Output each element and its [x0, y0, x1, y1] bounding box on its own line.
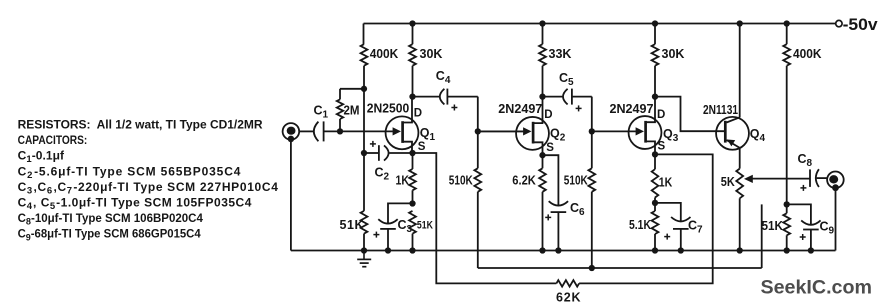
- junction 2M / 400K bias node: [361, 86, 367, 92]
- resistor 510K (Q2 gate return): [474, 131, 481, 268]
- label 510K: [449, 174, 473, 188]
- node C2 left / 51K top: [361, 150, 367, 156]
- label 5.1K: [629, 218, 651, 232]
- capacitor C2 (5.6uf, source bypass to bias node): [364, 145, 413, 161]
- junction C9 / ground rail: [808, 247, 814, 253]
- node Q2 gate / 510K: [475, 128, 481, 134]
- label 51K: [762, 219, 784, 233]
- svg-text:62K: 62K: [556, 291, 581, 305]
- label C3: [398, 218, 413, 235]
- svg-text:D: D: [657, 109, 665, 121]
- terminal -50v supply: [836, 16, 879, 34]
- svg-text:2N2497: 2N2497: [610, 101, 654, 116]
- resistor 5.1K (parallel C7): [652, 203, 659, 251]
- wire 51K/C9 node down to bias return line: [761, 204, 763, 268]
- capacitor C3 (220uf) jog and plates: [378, 203, 412, 250]
- junction 51K / ground rail: [409, 247, 415, 253]
- capacitor C7 (220uf) jog and plates: [655, 203, 691, 251]
- label 2N2497: [498, 101, 542, 116]
- capacitor C9 (68uf, parallel 51K): [787, 204, 821, 250]
- resistor 1K (Q3 source): [652, 154, 659, 203]
- svg-text:S: S: [418, 141, 426, 153]
- polarity + of C5: [576, 105, 582, 111]
- junction top rail / 33K: [539, 20, 545, 26]
- junction 5K / ground rail: [737, 247, 743, 253]
- polarity + of C4: [451, 105, 457, 111]
- polarity + of C8: [800, 185, 806, 191]
- node Q2 source: [539, 152, 545, 158]
- resistor 1K (Q1 source): [409, 153, 416, 204]
- label 2M: [344, 104, 360, 118]
- junction C3 / ground rail: [385, 247, 391, 253]
- polarity + of C3: [373, 232, 379, 238]
- label 1K: [659, 176, 673, 190]
- pin label S (Q3 source): [658, 141, 666, 153]
- resistor 62K (feedback): [556, 280, 579, 286]
- resistor 51K (Q1 source return): [361, 153, 368, 251]
- transistor Q3 (2N2497 FET): [629, 97, 662, 155]
- svg-text:400K: 400K: [793, 47, 822, 61]
- node Q1 source: [409, 150, 415, 156]
- label 2N2500: [367, 100, 410, 115]
- resistor 510K (Q3 gate return): [588, 131, 595, 268]
- junction top rail / Q4 emitter: [737, 20, 743, 26]
- wire C1 to gate node Q1: [324, 130, 393, 132]
- label 30K: [420, 47, 443, 61]
- capacitor C1 (0.1uf input coupling): [314, 121, 324, 141]
- svg-text:5K: 5K: [721, 175, 735, 189]
- resistor 51K (parallel C3): [409, 211, 416, 251]
- wire top supply rail (-50v bus): [364, 23, 836, 25]
- node 1K bottom / C7 / 5.1K: [652, 200, 658, 206]
- svg-text:30K: 30K: [662, 47, 685, 61]
- label 2N1131: [703, 102, 738, 117]
- pin label S (Q2 source): [546, 142, 554, 154]
- svg-text:2M: 2M: [344, 104, 360, 118]
- junction 5.1K / ground rail: [652, 247, 658, 253]
- wire input jack shield down to ground rail: [290, 140, 292, 251]
- polarity + of C6: [545, 214, 551, 220]
- svg-text:51K: 51K: [762, 219, 784, 233]
- svg-text:510K: 510K: [564, 174, 588, 188]
- capacitor C5 (1.0uf interstage coupling): [543, 89, 592, 105]
- resistor 30K (Q1 drain load): [409, 24, 416, 97]
- wire Q3 drain to Q4 base: [655, 97, 725, 132]
- transistor Q2 (2N2497 FET): [478, 97, 549, 156]
- polarity + of C9: [800, 234, 806, 240]
- svg-text:RESISTORS: All 1/2 watt, TI T: RESISTORS: All 1/2 watt, TI Type CD1/2MR: [18, 117, 263, 131]
- junction top rail / 30K drain Q1: [409, 20, 415, 26]
- svg-text:1K: 1K: [396, 174, 410, 188]
- svg-text:CAPACITORS:: CAPACITORS:: [18, 133, 88, 147]
- svg-text:51K: 51K: [340, 218, 364, 232]
- label 51K: [340, 218, 364, 232]
- polarity + of C2: [370, 141, 376, 147]
- label 400K: [793, 47, 822, 61]
- label Q2: [550, 127, 566, 144]
- capacitor C8 (10uf output coupling): [810, 169, 827, 187]
- transistor Q1 (2N2500 FET): [386, 97, 419, 153]
- junction C6 / ground rail: [555, 247, 561, 253]
- capacitor C6 (220uf source bypass): [543, 155, 569, 250]
- junction top rail / 400K output: [784, 20, 790, 26]
- svg-text:2N2500: 2N2500: [367, 100, 410, 115]
- svg-text:S: S: [658, 141, 666, 153]
- label C4: [436, 69, 451, 86]
- node Q2 drain / C5: [539, 93, 545, 99]
- potentiometer 5K (output level): [736, 169, 743, 251]
- resistor 30K (Q3 drain load): [652, 24, 659, 97]
- label 62K: [556, 291, 581, 305]
- svg-text:SeekIC.com: SeekIC.com: [761, 277, 873, 299]
- label 510K: [564, 174, 588, 188]
- svg-text:1K: 1K: [659, 176, 673, 190]
- node Q3 drain: [652, 93, 658, 99]
- svg-text:400K: 400K: [370, 47, 399, 61]
- resistor 6.2K (Q2 source): [539, 155, 546, 250]
- svg-text:5.1K: 5.1K: [629, 218, 651, 232]
- transistor Q4 (2N1131 PNP): [716, 24, 749, 169]
- pin label D (Q1 drain): [414, 108, 422, 120]
- label Q4: [750, 127, 766, 144]
- svg-text:S: S: [546, 142, 554, 154]
- label C2: [375, 166, 390, 183]
- resistor 2M (gate bias): [337, 89, 364, 132]
- node Q1 drain / C4: [409, 93, 415, 99]
- wiper arrow of 5K pot: [744, 175, 810, 183]
- svg-text:6.2K: 6.2K: [512, 174, 536, 188]
- resistor 33K (Q2 drain load): [539, 24, 546, 97]
- resistor 400K (Q1 gate bias, to -50v): [361, 24, 368, 89]
- wire C5 down to Q3 gate node: [591, 97, 593, 132]
- svg-text:510K: 510K: [449, 174, 473, 188]
- label 51K: [417, 220, 433, 232]
- wire Q1 source to feedback line: [413, 153, 557, 283]
- label Q1: [420, 126, 436, 143]
- label 30K: [662, 47, 685, 61]
- input terminal J1 (coax jack): [283, 123, 300, 142]
- wire bias node down to C2/51K node: [363, 89, 365, 153]
- svg-text:51K: 51K: [417, 220, 433, 232]
- watermark SeekIC.com: [761, 277, 873, 299]
- label C1: [314, 104, 329, 121]
- label 2N2497: [610, 101, 654, 116]
- wire gate node to Q2: [478, 130, 523, 132]
- junction 51K / ground rail: [784, 247, 790, 253]
- node Q3 source: [652, 151, 658, 157]
- junction 510K / feedback line: [589, 265, 595, 271]
- label C8: [798, 152, 813, 169]
- node gate Q1 / 2M junction: [337, 128, 343, 134]
- svg-text:2N2497: 2N2497: [498, 101, 542, 116]
- pin label D (Q2 drain): [544, 109, 552, 121]
- resistor 51K (output network): [783, 204, 790, 250]
- pin label D (Q3 drain): [657, 109, 665, 121]
- wire 62K to Q3 source: [579, 154, 713, 283]
- resistor 400K (output bias, to -50v): [783, 24, 790, 205]
- label 5K: [721, 175, 735, 189]
- label C6: [570, 201, 585, 218]
- svg-text:30K: 30K: [420, 47, 443, 61]
- label 400K: [370, 47, 399, 61]
- label 1K: [396, 174, 410, 188]
- capacitor C4 (1.0uf interstage coupling): [413, 89, 478, 105]
- junction ground rail tap: [361, 247, 367, 253]
- label 6.2K: [512, 174, 536, 188]
- wire gate node to Q3: [592, 130, 636, 132]
- svg-text:33K: 33K: [549, 47, 572, 61]
- output terminal J2 (coax jack): [827, 172, 844, 192]
- node 400K / 51K / C9: [784, 201, 790, 207]
- junction C7 / ground rail: [678, 247, 684, 253]
- polarity + of C7: [664, 234, 670, 240]
- svg-text:2N1131: 2N1131: [703, 102, 738, 117]
- junction top rail / 30K drain Q3: [652, 20, 658, 26]
- wire output jack shield down to ground rail: [835, 188, 837, 250]
- svg-text:D: D: [544, 109, 552, 121]
- label 33K: [549, 47, 572, 61]
- wire gate-return bus (510K commons): [478, 267, 762, 269]
- note resistors and capacitors types: [18, 117, 279, 243]
- svg-text:-50v: -50v: [843, 16, 879, 34]
- ground symbol: [357, 251, 371, 267]
- wire C4 down to Q2 gate node: [477, 97, 479, 132]
- svg-text:D: D: [414, 108, 422, 120]
- wire ground rail: [291, 250, 836, 252]
- label C9: [820, 220, 835, 237]
- label Q3: [663, 127, 679, 144]
- node 1K bottom / C3 / 51K: [409, 200, 415, 206]
- wire input jack to C1: [299, 130, 314, 132]
- node Q3 gate / 510K: [589, 128, 595, 134]
- label C5: [559, 71, 574, 88]
- junction 6.2K / ground rail: [539, 247, 545, 253]
- pin label S (Q1 source): [418, 141, 426, 153]
- label C7: [688, 219, 703, 236]
